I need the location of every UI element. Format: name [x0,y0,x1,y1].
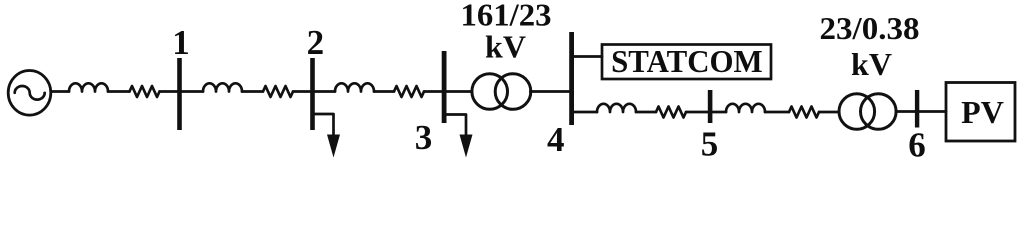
wire L4 to R4 [636,111,656,114]
wire bus 4 to STATCOM box [574,55,602,58]
load branch at bus 3 [447,115,466,140]
bus 2 bar [310,58,315,130]
inductor L4 [597,104,636,112]
wire L2 to R2 [242,90,263,93]
inductor L5 [726,104,765,112]
svg-text:3: 3 [415,118,433,157]
wire T2 to bus 6 and PV box [896,110,946,113]
wire bus 2 to L3 [315,90,335,93]
wire L3 to R3 [374,90,394,93]
svg-text:5: 5 [701,125,719,162]
wire bus 5 to L5 [712,111,726,114]
wire R5 to transformer T2 [819,111,839,114]
bus 1 bar [177,58,182,130]
PV box [946,83,1015,142]
svg-text:1: 1 [172,23,190,62]
load branch at bus 2 [315,114,334,139]
resistor R1 [130,86,160,97]
svg-text:STATCOM: STATCOM [611,43,763,79]
wire bus 3 to transformer T1 [447,90,472,93]
bus 3 bar [442,51,447,123]
load arrow head at bus 2 [327,135,340,158]
STATCOM box [602,45,771,80]
wire R1 to bus 1 [160,90,178,93]
resistor R5 [789,107,819,118]
svg-text:161/23: 161/23 [461,0,552,32]
wire generator to L1 [51,90,69,93]
svg-text:6: 6 [908,126,926,162]
wire L1 to R1 [108,90,130,93]
wire L5 to R5 [765,111,789,114]
wire R3 to bus 3 [424,90,442,93]
wire bus 1 to L2 [182,90,203,93]
inductor L3 [335,83,374,91]
load arrow head at bus 3 [460,135,473,158]
svg-text:4: 4 [547,120,565,159]
transformer T2 primary circle [839,94,875,130]
bus 5 bar [708,90,713,123]
resistor R3 [394,86,424,97]
generator sine wave [15,86,45,100]
resistor R4 [656,107,686,118]
inductor L1 [69,83,108,91]
svg-text:kV: kV [851,46,892,82]
inductor L2 [203,83,242,91]
bus 4 bar [569,32,574,125]
resistor R2 [263,86,293,97]
wire T1 to bus 4 [530,90,569,93]
wire R2 to bus 2 [293,90,310,93]
transformer T2 secondary circle [861,94,897,130]
transformer T1 primary circle [472,74,508,110]
generator G [8,71,51,116]
wire bus 4 to L4 [574,111,597,114]
svg-text:kV: kV [485,29,526,65]
svg-text:PV: PV [961,94,1004,130]
transformer T1 secondary circle [495,74,531,110]
bus 6 bar [915,90,919,128]
svg-text:23/0.38: 23/0.38 [820,10,920,46]
wire R4 to bus 5 [686,111,708,114]
svg-text:2: 2 [307,23,325,62]
